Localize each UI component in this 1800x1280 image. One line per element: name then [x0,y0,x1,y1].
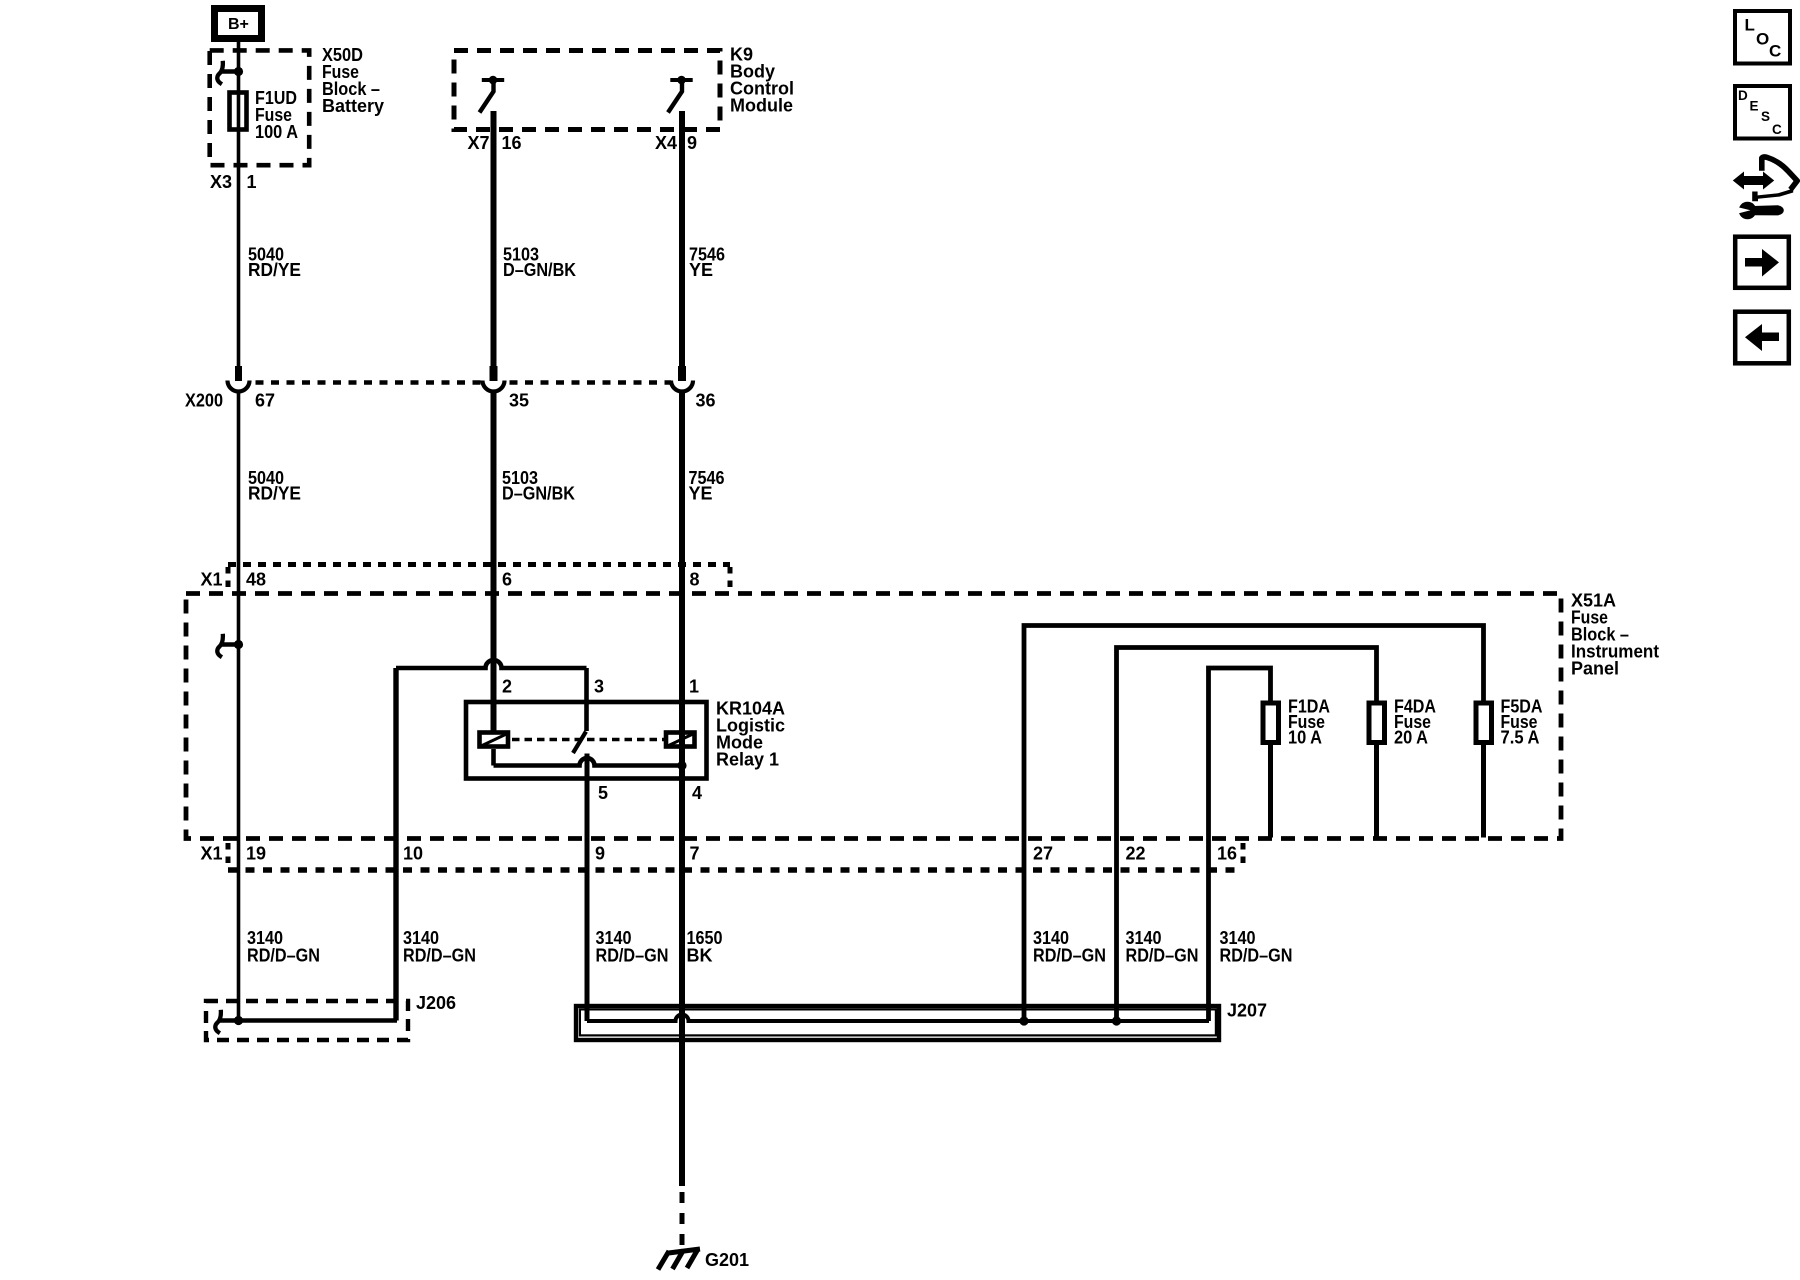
pin number 8 (X1) [690,570,700,590]
svg-text:27: 27 [1033,844,1053,864]
pin number 7 (X1) [690,844,700,864]
wire label 5103 D-GN/BK (lower) [502,468,575,504]
wire label 5040 RD/YE (upper) [248,245,301,281]
svg-text:7: 7 [690,844,700,864]
ground G201 [658,1249,700,1270]
fuse feed wire to F5DA and X1-27 [1024,626,1484,1022]
wire relay pin 5 (3140 RD/D-GN) [585,754,590,1022]
svg-text:1: 1 [689,677,699,697]
fuse F1DA 10 A [1263,703,1279,743]
relay pin number 1 [689,677,699,697]
pin number 22 (X1) [1126,844,1146,864]
pin number 16 (X7) [502,133,522,153]
svg-text:RD/YE: RD/YE [248,484,301,504]
wire branch to relay pin 3 and X1-10 with hop over pin 2 wire [396,660,587,1021]
relay pin number 2 [502,677,512,697]
svg-text:3: 3 [594,677,604,697]
X200 terminal at pin 67 [228,366,250,392]
pin number 16 (X1) [1217,844,1237,864]
svg-text:B+: B+ [228,16,249,33]
wire label 3140 RD/D-GN (pin 10) [403,928,476,966]
fuse feed wire to F1DA and X1-16 [1209,668,1271,1021]
pin number 19 (X1) [246,844,266,864]
svg-text:9: 9 [595,844,605,864]
svg-text:RD/D–GN: RD/D–GN [247,946,320,966]
junction dot relay pin 4 [677,761,686,770]
wire label 3140 RD/D-GN (pin 27) [1033,928,1106,966]
wire relay pin 4 to X1-7 (1650 BK) [679,766,685,1187]
J206 label [416,993,456,1013]
pin number 67 (X200) [255,391,275,411]
svg-text:67: 67 [255,391,275,411]
wire 7546 YE below X200 [679,392,685,766]
body control module K9 dashed outline [454,51,720,130]
X50D Fuse Block - Battery label [322,45,384,116]
svg-text:10: 10 [403,844,423,864]
wire B+ to fuse F1UD (5040 RD/YE) [237,42,241,366]
wire label 7546 YE (lower) [689,468,725,504]
relay internal wire coil to pin 4 with hop over pin 5 wire [494,749,683,766]
svg-text:G201: G201 [705,1250,749,1270]
relay coil (pin 2) [480,733,509,747]
svg-text:RD/D–GN: RD/D–GN [403,946,476,966]
back arrow box [1735,312,1789,364]
svg-text:RD/D–GN: RD/D–GN [1126,946,1199,966]
svg-text:D–GN/BK: D–GN/BK [503,260,576,280]
svg-text:10 A: 10 A [1288,728,1322,748]
svg-text:7.5 A: 7.5 A [1501,728,1540,748]
svg-text:L: L [1745,16,1755,35]
splice J206 dashed outline [206,1001,408,1040]
splice J206 wire [218,1018,397,1023]
fuse feed wire to F4DA and X1-22 [1117,648,1377,1022]
svg-text:O: O [1756,30,1769,49]
wire below fuse F4DA [1374,745,1379,838]
svg-text:Battery: Battery [322,96,384,116]
junction dot at X51A curl [234,640,243,649]
connector X1 label (upper row) [201,570,223,590]
svg-text:1: 1 [247,172,257,192]
relay KR104A box [466,702,707,779]
svg-text:22: 22 [1126,844,1146,864]
wire label 3140 RD/D-GN (pin 22) [1126,928,1199,966]
svg-text:5: 5 [598,783,608,803]
svg-text:RD/D–GN: RD/D–GN [596,946,669,966]
junction dot J207 pin 22 wire [1112,1016,1121,1025]
relay pin number 4 [692,783,702,803]
BCM solid state driver output X4-9 [668,76,693,113]
fuse block X51A dashed outline [186,594,1561,839]
pin number 48 (X1) [246,570,266,590]
wire 1650 BK below J207 to ground [679,1042,685,1249]
internal connection curl in X51A [217,634,238,657]
X51A Fuse Block - Instrument Panel label [1571,591,1659,679]
svg-text:Module: Module [730,96,793,116]
svg-text:RD/D–GN: RD/D–GN [1220,946,1293,966]
wire label 5040 RD/YE (lower) [248,468,301,504]
svg-text:X200: X200 [185,391,223,411]
pin number 27 (X1) [1033,844,1053,864]
wire below fuse F1DA [1268,745,1273,838]
svg-text:35: 35 [509,391,529,411]
connector X3 label [210,172,232,192]
internal connection curl in X50D [217,61,238,84]
relay pin number 5 [598,783,608,803]
splice pack J207 outer box [576,1006,1219,1040]
junction dot J207 pin 27 wire [1019,1016,1028,1025]
J207 label [1227,1001,1267,1021]
svg-text:16: 16 [1217,844,1237,864]
harness routing icon (double arrow with hook outline and wrench) [1733,157,1797,219]
wire 7546 YE from BCM X4-9 [679,111,685,366]
svg-text:C: C [1772,122,1782,137]
F5DA label [1501,697,1543,748]
svg-text:100 A: 100 A [255,122,298,142]
svg-text:6: 6 [502,570,512,590]
splice pack J207 inner box [580,1009,1216,1035]
svg-text:X1: X1 [201,844,223,864]
pin number 9 (X1) [595,844,605,864]
fuse F4DA 20 A [1369,703,1385,743]
connector X4 label [655,133,677,153]
LOC navigation box [1735,11,1790,64]
relay switch lever [573,732,586,754]
KR104A Logistic Mode Relay 1 label [716,699,785,770]
J207 bus wire with hop over 1650 BK wire [587,1015,1209,1021]
pin number 1 (X3) [247,172,257,192]
wire 5103 D-GN/BK below X200 [491,392,497,731]
K9 Body Control Module label [730,45,794,116]
svg-text:C: C [1769,42,1781,61]
DESC navigation box [1735,86,1790,139]
svg-text:J207: J207 [1227,1001,1267,1021]
wire label 5103 D-GN/BK (upper) [503,245,576,281]
svg-text:YE: YE [689,484,713,504]
svg-text:Panel: Panel [1571,659,1619,679]
connector X1 label (lower row) [201,844,223,864]
svg-text:X1: X1 [201,570,223,590]
svg-text:20 A: 20 A [1394,728,1428,748]
power feed B+ terminal [215,9,262,39]
pin number 6 (X1) [502,570,512,590]
svg-text:X7: X7 [468,133,490,153]
F1DA label [1288,697,1330,748]
F4DA label [1394,697,1436,748]
G201 label [705,1250,749,1270]
svg-text:48: 48 [246,570,266,590]
wire 5103 D-GN/BK from BCM X7-16 [491,111,497,366]
junction dot J206 [234,1016,243,1025]
connector X1 lower dotted bracket [228,843,1243,870]
svg-text:E: E [1750,99,1759,114]
F1UD label [255,88,298,142]
connector X200 label [185,391,223,411]
svg-text:D: D [1738,88,1748,103]
X200 terminal at pin 35 [483,366,505,392]
svg-text:J206: J206 [416,993,456,1013]
relay mechanical linkage dashed line [512,738,664,741]
fuse F1UD 100 A [230,93,247,130]
pin number 35 (X200) [509,391,529,411]
svg-text:19: 19 [246,844,266,864]
svg-text:RD/D–GN: RD/D–GN [1033,946,1106,966]
wire 5040 RD/YE below X200 [237,392,241,1021]
svg-text:9: 9 [687,133,697,153]
svg-text:2: 2 [502,677,512,697]
internal connection curl in J206 [215,1010,221,1033]
wire label 7546 YE (upper) [689,245,725,281]
X200 terminal at pin 36 [671,366,693,392]
BCM solid state driver output X7-16 [480,76,505,113]
svg-text:X3: X3 [210,172,232,192]
connector X1 upper dotted bracket [228,565,730,592]
pin number 36 (X200) [696,391,716,411]
relay pin number 3 [594,677,604,697]
svg-text:BK: BK [687,946,713,966]
svg-text:RD/YE: RD/YE [248,260,301,280]
svg-text:4: 4 [692,783,702,803]
wire below fuse F5DA [1481,745,1486,838]
pin number 10 (X1) [403,844,423,864]
pin number 9 (X4) [687,133,697,153]
wire label 3140 RD/D-GN (pin 16) [1220,928,1293,966]
forward arrow box [1735,237,1789,288]
wire label 3140 RD/D-GN (pin 19) [247,928,320,966]
svg-text:36: 36 [696,391,716,411]
wire label 3140 RD/D-GN (pin 9) [596,928,669,966]
relay coil (pin 1) [666,733,695,747]
svg-text:16: 16 [502,133,522,153]
svg-text:8: 8 [690,570,700,590]
connector X7 label [468,133,490,153]
svg-text:Relay 1: Relay 1 [716,750,779,770]
fuse block X50D dashed outline [210,50,310,165]
svg-text:D–GN/BK: D–GN/BK [502,484,575,504]
svg-text:YE: YE [689,260,713,280]
inline connector X200 dashed line [256,380,672,385]
wire label 1650 BK (pin 7) [687,928,723,966]
junction dot at X50D curl [234,67,243,76]
svg-text:X4: X4 [655,133,677,153]
fuse F5DA 7.5 A [1476,703,1492,743]
svg-text:S: S [1761,109,1770,124]
